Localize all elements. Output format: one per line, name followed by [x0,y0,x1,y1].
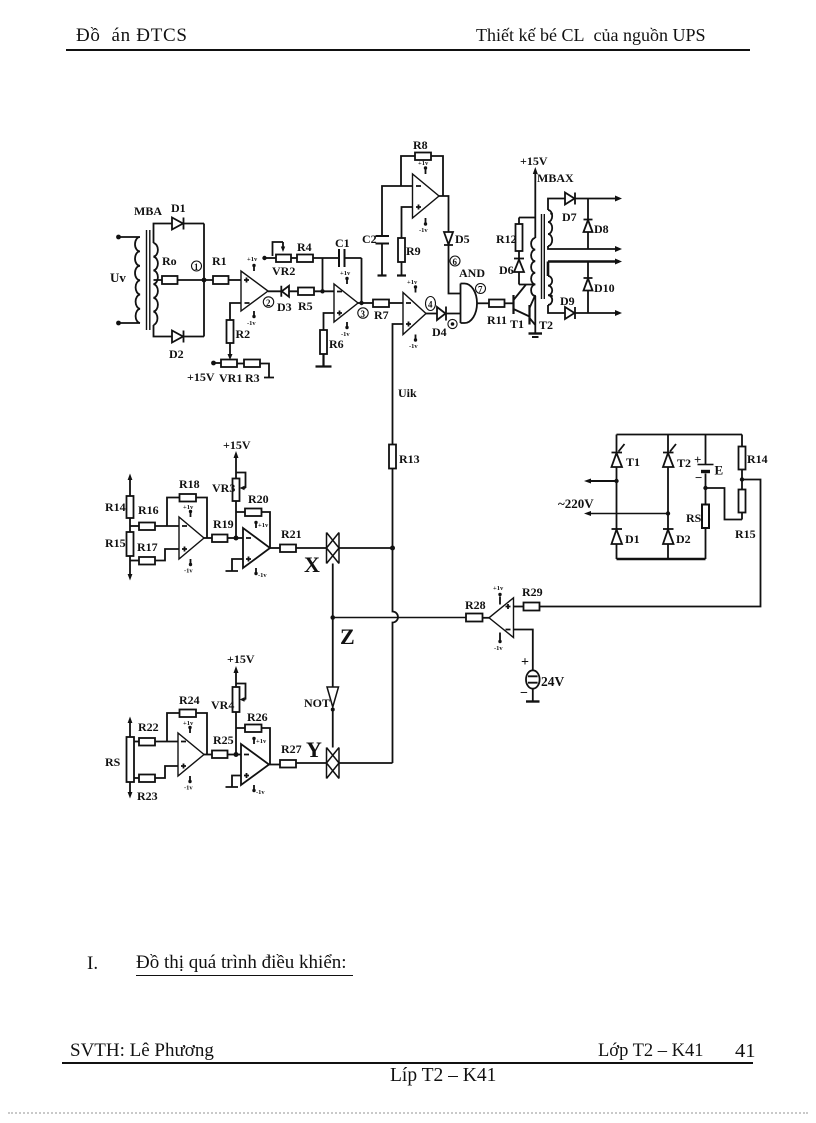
resistor R24 feedback [167,693,207,755]
svg-text:R7: R7 [374,308,389,322]
svg-text:Uik: Uik [398,386,417,400]
svg-text:R14: R14 [105,500,126,514]
svg-text:R26: R26 [247,710,268,724]
resistor R3 [244,360,260,386]
resistor R4 [297,240,313,262]
node 1 [192,261,207,282]
svg-text:+15V: +15V [223,438,251,452]
header right text [476,25,705,46]
NOT gate [304,618,339,748]
capacitor C1 [335,236,362,267]
wire Uik vertical main line [393,324,418,763]
svg-text:T1: T1 [626,455,640,469]
svg-text:Y: Y [306,737,322,762]
node +15V supply left [187,361,221,384]
diode D8 [584,199,609,250]
transformer MBAX primary winding [531,238,535,325]
svg-text:R5: R5 [298,299,313,313]
svg-text:+1v: +1v [407,279,418,286]
svg-text:-1v: -1v [184,785,193,792]
wire secondary top lead [154,224,173,244]
diode D4 [432,307,461,340]
footer page number [735,1040,756,1063]
svg-text:RS: RS [105,755,121,769]
svg-text:R16: R16 [138,503,159,517]
svg-text:X: X [304,552,320,577]
svg-text:+1v: +1v [256,738,267,745]
output arrows right [615,196,622,317]
channel Y divider line RS [128,717,133,799]
AND gate U7 [459,266,486,323]
resistor R6 [320,330,344,354]
resistor R19 [212,517,234,542]
svg-text:+: + [521,655,529,670]
multiplier X [304,533,339,578]
header left text [76,25,188,47]
diode D9 [560,294,619,319]
svg-text:3: 3 [361,309,366,319]
svg-text:+15V: +15V [227,652,255,666]
potentiometer VR1 [219,360,242,386]
op-amp U2 [241,256,274,327]
svg-text:D3: D3 [277,300,292,314]
svg-text:R2: R2 [236,327,251,341]
wire op-amp 4 output [426,313,437,315]
svg-text:R24: R24 [179,693,200,707]
resistor RS shunt input [105,737,134,782]
wire R27 to Y multiplier [296,762,327,764]
svg-text:R17: R17 [137,540,158,554]
diode D2 [169,331,204,362]
svg-text:MBAX: MBAX [537,171,574,185]
svg-text:T1: T1 [510,317,524,331]
svg-text:Uv: Uv [110,270,126,285]
wire R4 to C1 with tap down [313,258,339,291]
svg-text:D7: D7 [562,210,577,224]
wire R1 to op-amp 2 [229,279,242,281]
footer right [598,1041,704,1062]
wire Ro to R1 [178,279,214,281]
svg-text:R20: R20 [248,492,269,506]
wire op-amp E noninverting input [514,606,524,608]
svg-text:R14: R14 [747,452,768,466]
node X junction dot [390,546,395,551]
svg-text:RS: RS [686,511,702,525]
+15V supply VR4 [227,652,255,755]
svg-text:R15: R15 [105,536,126,550]
resistor R23 [134,766,178,803]
wire R21 to X multiplier [296,547,327,549]
wire secondary bottom lead [154,325,173,337]
svg-text:R8: R8 [413,138,428,152]
wire R19 to op-amp B [228,536,244,541]
svg-text:-1v: -1v [256,789,265,796]
svg-text:+1v: +1v [493,585,504,592]
resistor R25 [212,733,234,758]
header rule [66,49,750,51]
svg-text:+1v: +1v [258,522,269,529]
diode D10 [584,262,615,314]
wire center tap [154,279,163,281]
battery E [694,435,723,491]
wire R16 to op-amp A [155,525,179,527]
svg-text:R29: R29 [522,585,543,599]
svg-text:R19: R19 [213,517,234,531]
resistor R7 [373,300,389,323]
svg-text:T2: T2 [677,456,691,470]
resistor R2 [227,320,251,343]
svg-text:-1v: -1v [258,572,267,579]
wire op-amp 3 noninverting to R6 [324,313,335,330]
svg-text:D10: D10 [594,281,615,295]
ground op-amp B noninverting [226,559,244,571]
wire R5 to op-amp 3 [314,289,334,293]
wire right vertical of rectifier [203,224,205,337]
wire R11 to T1 base [505,302,514,304]
wire op-amp D output [269,763,280,765]
resistor R15 [105,532,134,556]
svg-text:R9: R9 [406,244,421,258]
svg-text:1: 1 [194,262,199,272]
svg-text:R12: R12 [496,232,517,246]
diode D3 [268,286,298,314]
transformer MBAX secondary bottom [548,262,619,314]
resistor R20 feedback [236,492,270,548]
svg-text:2: 2 [266,298,271,308]
resistor R11 [487,300,507,328]
svg-text:D2: D2 [169,347,184,361]
svg-text:VR4: VR4 [211,698,234,712]
svg-text:D1: D1 [625,532,640,546]
resistor R26 feedback [236,710,270,765]
wire AND output [477,302,489,304]
resistor Ro [162,254,178,284]
wire R29 to divider R15 [540,480,761,607]
svg-text:R1: R1 [212,254,227,268]
wire Y multiplier to main line corner [339,762,393,764]
channel X input divider line [128,474,133,581]
resistor R15 bridge [735,490,756,542]
capacitor C2 [362,232,389,276]
svg-text:R25: R25 [213,733,234,747]
svg-text:~220V: ~220V [558,496,594,511]
svg-text:AND: AND [459,266,485,280]
wire op-amp 5 inverting input to C2 [382,186,413,236]
svg-text:VR3: VR3 [212,481,235,495]
svg-text:D8: D8 [594,222,609,236]
svg-text:D6: D6 [499,263,514,277]
svg-text:D4: D4 [432,325,447,339]
thyristor T1 [612,435,641,530]
transformer MBA primary winding [116,235,140,326]
svg-text:R13: R13 [399,452,420,466]
svg-text:-1v: -1v [184,568,193,575]
wire battery to R15 bottom [706,488,743,520]
op-amp D [241,737,269,796]
transformer MBA core [147,230,150,330]
svg-text:E: E [715,463,724,478]
wire VR1 to R3 [237,363,244,365]
svg-text:D5: D5 [455,232,470,246]
wire op-amp E inverting to 24V source [514,630,533,671]
footer rule [62,1062,753,1064]
op-amp A [179,504,204,575]
resistor R17 [130,540,179,565]
potentiometer VR3 [212,473,246,502]
svg-text:D2: D2 [676,532,691,546]
svg-text:7: 7 [478,285,483,295]
wire R25 to op-amp D [228,752,242,757]
transformer MBAX secondary top [548,199,619,250]
wire divider tap to R16 [130,525,139,527]
svg-text:+1v: +1v [183,720,194,727]
wire R3 to ground stub [260,364,274,378]
svg-text:R28: R28 [465,598,486,612]
diode D1 bridge [612,529,640,559]
AC input ~220V [558,479,670,517]
wire op-amp B output [270,547,280,549]
resistor R22 [134,720,178,746]
svg-text:+15V: +15V [187,370,215,384]
resistor R16 [138,503,159,530]
resistor R8 feedback [401,138,443,196]
resistor R1 [212,254,229,284]
svg-text:24V: 24V [541,674,565,689]
svg-text:NOT: NOT [304,696,330,710]
multiplier Y [306,737,339,779]
+15V supply MBAX [520,154,548,238]
potentiometer VR4 [211,684,246,713]
resistor R18 feedback [167,477,207,538]
resistor R12 [496,218,535,252]
transistor T2 [529,295,554,337]
diode D2 bridge [663,529,691,559]
svg-text:T2: T2 [539,318,553,332]
resistor R28 [465,598,486,622]
svg-text:Ro: Ro [162,254,177,268]
section heading title [136,952,353,976]
op-amp U4 [403,279,436,350]
svg-text:R6: R6 [329,337,344,351]
wire X multiplier to main line [339,547,393,549]
svg-text:D9: D9 [560,294,575,308]
diode D6 [499,251,524,285]
resistor R9 [397,238,421,276]
svg-text:R18: R18 [179,477,200,491]
svg-text:R3: R3 [245,371,260,385]
resistor R29 [522,585,543,611]
svg-text:VR2: VR2 [272,264,295,278]
wire R28 to op-amp E [483,617,490,619]
svg-text:+1v: +1v [340,270,351,277]
wire op-amp C output [204,754,212,756]
svg-text:C2: C2 [362,232,377,246]
resistor RS shunt bridge [686,488,709,559]
svg-text:R21: R21 [281,527,302,541]
svg-text:C1: C1 [335,236,350,250]
op-amp U3 [334,270,368,338]
svg-text:R27: R27 [281,742,302,756]
svg-text:R22: R22 [138,720,159,734]
svg-text:-1v: -1v [419,227,428,234]
svg-text:−: − [695,470,702,485]
op-amp E error amplifier [489,585,514,652]
wire C1 down to node 3 output [361,258,363,303]
transformer MBAX core [542,214,545,299]
svg-text:-1v: -1v [409,343,418,350]
+15V supply VR3 [223,438,251,538]
wire op-amp A output [204,537,212,539]
ground below R6 [316,354,332,367]
node Z [330,615,354,649]
potentiometer VR2 [272,242,295,278]
op-amp B [243,521,270,579]
svg-text:R11: R11 [487,313,507,327]
bridge bottom rail [617,558,706,560]
footer left [70,1040,214,1062]
svg-text:+15V: +15V [520,154,548,168]
svg-text:4: 4 [428,300,433,310]
wire op-amp 2 inverting input [230,303,241,320]
resistor R14 [105,496,134,518]
resistor R21 [280,527,302,552]
svg-text:R15: R15 [735,527,756,541]
resistor R27 [280,742,302,768]
svg-text:-1v: -1v [494,645,503,652]
transistor T1 [510,285,530,332]
svg-text:-1v: -1v [247,320,256,327]
wire op-amp 3 output node [358,301,373,305]
svg-text:D1: D1 [171,201,186,215]
footer second line [390,1065,496,1087]
svg-text:MBA: MBA [134,204,162,218]
svg-text:+: + [694,452,701,467]
svg-text:VR1: VR1 [219,371,242,385]
section heading I. [87,953,98,975]
wire op-amp 5 output down [439,196,449,232]
wire op-amp 5 noninverting to R9 [402,207,413,238]
diode D1 [171,201,204,230]
svg-text:+1v: +1v [183,504,194,511]
wire R2 down arrow to VR1 [228,343,233,360]
node VR2 input dot [262,256,276,260]
wire VR2 to R4 [291,257,297,259]
resistor R13 [389,445,420,469]
thyristor T2 [663,435,691,530]
op-amp C [178,720,204,792]
svg-text:+1v: +1v [418,160,429,167]
resistor R14 bridge [739,435,768,490]
svg-text:6: 6 [453,257,458,267]
svg-text:R23: R23 [137,789,158,803]
bridge top rail [617,434,743,436]
wire collector rail [519,284,535,286]
op-amp U5 [413,160,440,234]
source 24V [520,655,565,702]
ground op-amp D noninverting [226,776,242,788]
svg-text:+1v: +1v [247,256,258,263]
svg-text:R4: R4 [297,240,312,254]
transformer MBA secondary winding [154,243,158,325]
diode D5 [444,232,470,294]
svg-text:−: − [520,686,528,701]
bottom dotted border [8,1112,808,1114]
wire R7 to op-amp 4 [389,302,403,304]
resistor R5 [298,288,314,314]
diode D7 [562,193,619,225]
svg-text:Z: Z [340,624,355,649]
wire Z horizontal to R28 [333,617,466,619]
wire X down to Z node [332,564,334,618]
